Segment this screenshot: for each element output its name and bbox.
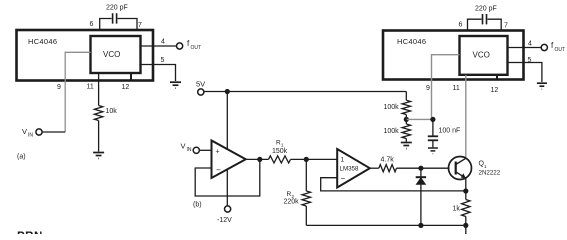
svg-text:150k: 150k — [272, 148, 288, 155]
svg-text:−: − — [216, 166, 221, 175]
svg-text:HC4046: HC4046 — [28, 37, 57, 46]
svg-text:9: 9 — [426, 85, 430, 92]
svg-text:4: 4 — [161, 39, 165, 46]
svg-text:LM358: LM358 — [340, 166, 359, 173]
svg-text:6: 6 — [459, 22, 463, 29]
svg-text:7: 7 — [504, 23, 508, 30]
svg-text:4: 4 — [528, 41, 532, 48]
svg-text:IN: IN — [28, 133, 33, 139]
svg-text:2N2222: 2N2222 — [479, 170, 501, 177]
svg-text:12: 12 — [122, 84, 130, 91]
svg-text:5: 5 — [161, 57, 165, 64]
svg-text:IN: IN — [187, 147, 192, 153]
svg-text:(a): (a) — [17, 154, 26, 161]
svg-text:6: 6 — [90, 21, 94, 28]
svg-text:HC4046: HC4046 — [397, 37, 426, 46]
svg-text:1k: 1k — [453, 206, 461, 213]
svg-text:V: V — [22, 127, 27, 136]
svg-text:5: 5 — [528, 57, 532, 64]
svg-text:9: 9 — [57, 84, 61, 91]
svg-text:11: 11 — [453, 85, 460, 92]
svg-text:VCO: VCO — [103, 50, 120, 59]
svg-text:100k: 100k — [384, 104, 400, 111]
svg-text:V: V — [181, 142, 186, 151]
svg-text:(b): (b) — [193, 202, 202, 209]
svg-text:100k: 100k — [384, 128, 400, 135]
svg-text:4.7k: 4.7k — [381, 157, 395, 164]
svg-text:12: 12 — [491, 87, 499, 94]
svg-text:7: 7 — [138, 22, 142, 29]
svg-text:220k: 220k — [284, 199, 300, 206]
svg-text:+: + — [216, 149, 220, 156]
svg-text:220 pF: 220 pF — [106, 5, 128, 12]
svg-text:OUT: OUT — [191, 45, 202, 51]
svg-text:-12V: -12V — [217, 217, 232, 224]
svg-text:220 pF: 220 pF — [475, 6, 497, 13]
svg-text:OUT: OUT — [555, 47, 566, 53]
svg-text:10k: 10k — [106, 108, 118, 115]
svg-text:−: − — [341, 174, 346, 183]
svg-text:VCO: VCO — [473, 51, 490, 60]
svg-text:11: 11 — [87, 84, 94, 91]
svg-text:5V: 5V — [196, 80, 205, 89]
svg-text:1: 1 — [341, 157, 345, 164]
svg-text:100 nF: 100 nF — [439, 128, 461, 135]
svg-text:PRN: PRN — [17, 231, 43, 234]
